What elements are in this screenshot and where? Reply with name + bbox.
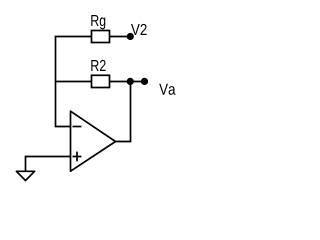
wire: non-inverting input to ground	[26, 157, 71, 172]
wire: Rg to node V2	[110, 36, 130, 38]
node Va terminal dot	[141, 78, 148, 85]
label Va	[159, 84, 175, 95]
op-amp U1 triangle	[71, 111, 116, 171]
junction dot (feedback node)	[127, 78, 134, 85]
resistor R2	[92, 75, 110, 87]
wire: R2 to node Va	[110, 81, 145, 83]
wire: inverting input net (top wire, left rail, minus-input wire)	[56, 37, 92, 127]
label R2	[91, 60, 105, 71]
resistor Rg	[92, 31, 110, 43]
op-amp non-inverting input plus sign	[73, 152, 82, 162]
label V2	[131, 24, 147, 35]
label Rg	[91, 15, 105, 29]
ground	[16, 171, 34, 180]
node V2 terminal dot	[127, 33, 134, 40]
wire: R2 left wire	[56, 81, 92, 83]
wire: op-amp output up to feedback node	[116, 82, 131, 142]
op-amp inverting input minus sign	[73, 126, 82, 128]
